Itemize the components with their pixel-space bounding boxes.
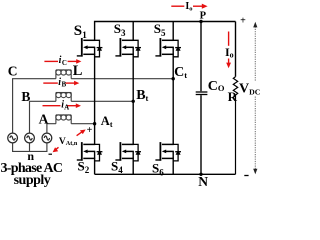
svg-text:supply: supply (14, 173, 51, 188)
svg-text:L: L (73, 63, 83, 79)
svg-text:S1: S1 (74, 23, 87, 41)
svg-text:B: B (62, 80, 67, 88)
svg-text:Io: Io (225, 45, 234, 60)
svg-text:S6: S6 (152, 161, 164, 178)
svg-text:S4: S4 (111, 158, 123, 175)
svg-text:Ct: Ct (174, 65, 187, 80)
svg-text:Bt: Bt (136, 88, 148, 103)
svg-text:C: C (62, 59, 67, 67)
svg-text:P: P (200, 11, 207, 22)
svg-text:B: B (21, 89, 30, 104)
svg-text:At: At (101, 114, 113, 129)
svg-text:R: R (228, 89, 238, 104)
svg-text:+: + (240, 15, 246, 26)
svg-text:S2: S2 (78, 158, 90, 175)
svg-text:Io: Io (185, 1, 192, 12)
svg-text:+: + (87, 125, 93, 136)
svg-text:CO: CO (208, 79, 225, 94)
svg-text:VDC: VDC (239, 82, 261, 97)
svg-text:S5: S5 (154, 21, 166, 38)
svg-text:C: C (8, 64, 18, 79)
svg-text:S3: S3 (114, 21, 126, 38)
svg-text:A: A (64, 104, 69, 112)
svg-text:VAt,n: VAt,n (59, 137, 78, 147)
svg-text:N: N (198, 174, 208, 189)
svg-text:A: A (39, 112, 49, 127)
